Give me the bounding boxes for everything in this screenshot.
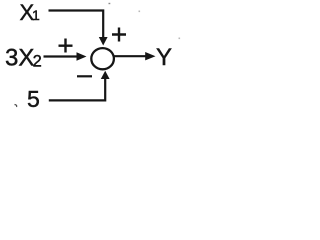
speckle dot b xyxy=(179,38,181,40)
plus sign (3X2 input) xyxy=(59,39,73,53)
plus sign (X1 input) xyxy=(112,28,126,42)
svg-text:Y: Y xyxy=(156,44,172,71)
speckle comma xyxy=(15,105,17,108)
arrowhead output xyxy=(145,52,155,60)
svg-text:1: 1 xyxy=(32,7,40,23)
arrowhead into summer top xyxy=(99,37,108,46)
speckle dot a xyxy=(139,11,141,13)
wire 3X2 to summer (left) xyxy=(44,55,79,57)
svg-text:5: 5 xyxy=(27,86,40,112)
wire 5 to summer (bottom) xyxy=(49,78,105,100)
node X1 label xyxy=(20,0,41,25)
summing junction circle xyxy=(91,48,114,69)
arrowhead into summer left xyxy=(77,52,87,61)
wire X1 to summer (top) xyxy=(49,11,104,39)
minus sign (5 input) xyxy=(77,75,92,77)
speckle dot c xyxy=(109,3,111,4)
svg-text:3X: 3X xyxy=(5,45,34,72)
node 3X2 label xyxy=(5,45,42,72)
wire summer to Y (output) xyxy=(114,55,146,57)
arrowhead into summer bottom xyxy=(101,71,110,79)
svg-text:2: 2 xyxy=(33,52,42,70)
